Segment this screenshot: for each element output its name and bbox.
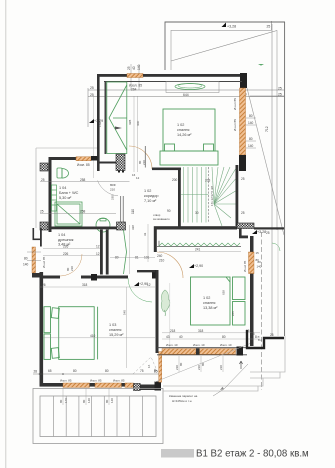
east wall bathroom bbox=[129, 225, 131, 274]
svg-text:318: 318 bbox=[198, 329, 204, 333]
svg-text:Из.кл 85: Из.кл 85 bbox=[233, 98, 237, 110]
svg-text:1 04: 1 04 bbox=[59, 186, 66, 190]
svg-text:Изол. 85: Изол. 85 bbox=[90, 379, 102, 383]
east side roof diagonal bbox=[247, 88, 284, 235]
svg-text:80: 80 bbox=[59, 399, 63, 403]
svg-text:540: 540 bbox=[123, 310, 127, 315]
treads: vertical lines, three bands bbox=[181, 167, 236, 226]
towel radiator bbox=[52, 185, 57, 211]
svg-text:264: 264 bbox=[131, 88, 137, 92]
svg-text:132: 132 bbox=[98, 122, 102, 127]
+2.90 flag bbox=[189, 264, 194, 268]
svg-text:25: 25 bbox=[90, 86, 94, 90]
svg-text:12: 12 bbox=[147, 283, 151, 287]
svg-text:B1 B2 етаж 2 - 80,08 кв.м: B1 B2 етаж 2 - 80,08 кв.м bbox=[196, 449, 309, 460]
svg-text:7,10 м²: 7,10 м² bbox=[144, 199, 157, 203]
svg-text:1 04: 1 04 bbox=[58, 233, 65, 237]
svg-text:Баня + WC: Баня + WC bbox=[59, 191, 79, 195]
svg-text:дрешник: дрешник bbox=[58, 238, 74, 242]
roof slope diagonal bbox=[171, 31, 277, 62]
svg-text:410: 410 bbox=[90, 334, 96, 338]
west wall bbox=[49, 157, 52, 232]
svg-text:Н=105см и т.н.: Н=105см и т.н. bbox=[172, 399, 192, 403]
svg-text:40: 40 bbox=[132, 66, 136, 70]
svg-text:80: 80 bbox=[24, 257, 28, 261]
east wall piece of bedroom103 / corridor wall bbox=[156, 270, 159, 353]
door arc into bedroom bbox=[157, 252, 183, 278]
dashed door swing V bbox=[133, 357, 159, 375]
svg-text:12: 12 bbox=[136, 176, 140, 180]
svg-text:218: 218 bbox=[170, 329, 176, 333]
east wall bbox=[250, 236, 254, 346]
svg-text:Изол. 85: Изол. 85 bbox=[60, 379, 72, 383]
bath bottom wall bbox=[49, 227, 118, 230]
svg-text:80: 80 bbox=[115, 256, 119, 260]
svg-text:101: 101 bbox=[144, 256, 150, 260]
svg-text:за качването: за качването bbox=[153, 217, 170, 221]
west outer wall mid bbox=[33, 228, 35, 240]
svg-text:140: 140 bbox=[87, 398, 91, 403]
west wall bbox=[40, 272, 44, 384]
room dims bbox=[39, 286, 155, 288]
svg-text:43: 43 bbox=[166, 335, 170, 339]
svg-text:200: 200 bbox=[172, 178, 178, 182]
svg-text:1 02: 1 02 bbox=[144, 189, 151, 193]
svg-text:210: 210 bbox=[159, 259, 165, 263]
terrace outer boundary bbox=[165, 22, 285, 70]
svg-text:328: 328 bbox=[131, 225, 135, 230]
svg-text:25: 25 bbox=[267, 25, 271, 29]
svg-text:110: 110 bbox=[131, 209, 135, 214]
svg-text:210: 210 bbox=[142, 160, 146, 165]
svg-text:258: 258 bbox=[80, 178, 86, 182]
svg-text:628: 628 bbox=[222, 290, 226, 295]
svg-text:240: 240 bbox=[157, 254, 163, 258]
wardrobe green tall bbox=[107, 82, 127, 154]
wall pieces between 103 and SE / orange vertical window bbox=[159, 352, 162, 383]
washbasin bbox=[96, 218, 110, 232]
svg-text:спалня: спалня bbox=[203, 301, 215, 305]
svg-text:Изол. 85: Изол. 85 bbox=[77, 163, 90, 167]
svg-text:80: 80 bbox=[73, 369, 77, 373]
svg-text:26: 26 bbox=[42, 283, 46, 287]
svg-text:25: 25 bbox=[278, 93, 282, 97]
svg-text:140: 140 bbox=[23, 263, 29, 267]
svg-text:40: 40 bbox=[179, 335, 183, 339]
svg-text:Из.кл 85: Из.кл 85 bbox=[233, 119, 237, 131]
level flag +3.29 bbox=[89, 119, 94, 123]
svg-text:спалня: спалня bbox=[177, 128, 189, 132]
svg-text:Изол. 10: Изол. 10 bbox=[193, 343, 205, 347]
svg-text:140: 140 bbox=[110, 398, 114, 403]
svg-text:5,30 м²: 5,30 м² bbox=[59, 196, 72, 200]
svg-text:230: 230 bbox=[111, 195, 115, 200]
svg-text:300: 300 bbox=[136, 121, 140, 126]
svg-text:80: 80 bbox=[153, 368, 157, 372]
svg-text:712: 712 bbox=[265, 126, 269, 132]
svg-text:15: 15 bbox=[256, 251, 260, 255]
east double wall bbox=[100, 230, 103, 275]
dim row above wall bbox=[33, 373, 162, 375]
ticks in balcony with labels bbox=[63, 388, 109, 405]
closet zigzag band bbox=[157, 245, 241, 247]
bathroom door arc (east wall) bbox=[98, 181, 119, 196]
svg-text:12: 12 bbox=[96, 245, 100, 249]
svg-text:80: 80 bbox=[179, 362, 183, 366]
svg-text:Каменна парапет на: Каменна парапет на bbox=[169, 394, 198, 398]
svg-text:17x 17/17,5 /28: 17x 17/17,5 /28 bbox=[210, 186, 214, 206]
svg-text:25: 25 bbox=[251, 332, 255, 336]
bottom dims bbox=[162, 332, 260, 334]
shower bbox=[55, 202, 82, 226]
bed bbox=[44, 307, 98, 360]
svg-text:28: 28 bbox=[34, 370, 38, 374]
svg-text:644: 644 bbox=[183, 93, 189, 97]
svg-text:25: 25 bbox=[241, 211, 245, 215]
svg-text:Изол. 10: Изол. 10 bbox=[220, 343, 232, 347]
stair bottom wall bbox=[154, 226, 237, 229]
svg-text:226: 226 bbox=[63, 252, 69, 256]
svg-text:Из.кл 85: Из.кл 85 bbox=[42, 256, 46, 268]
svg-text:140: 140 bbox=[248, 144, 254, 148]
svg-text:8 п: 8 п bbox=[258, 338, 263, 342]
gray roofline left bbox=[36, 147, 97, 149]
top wall: segments + doors bbox=[43, 276, 60, 279]
page left edge scan line bbox=[5, 0, 6, 468]
svg-text:Из.кл 85: Из.кл 85 bbox=[243, 260, 247, 272]
svg-text:+2,90: +2,90 bbox=[194, 264, 203, 268]
svg-text:25: 25 bbox=[127, 66, 131, 70]
svg-text:80: 80 bbox=[222, 335, 226, 339]
svg-text:328: 328 bbox=[128, 120, 132, 125]
svg-text:25: 25 bbox=[278, 87, 282, 91]
svg-text:210: 210 bbox=[70, 266, 74, 271]
svg-text:80: 80 bbox=[201, 362, 205, 366]
svg-text:80: 80 bbox=[82, 399, 86, 403]
svg-text:241: 241 bbox=[195, 248, 201, 252]
svg-text:Изол. 10: Изол. 10 bbox=[166, 343, 178, 347]
svg-text:318: 318 bbox=[82, 283, 88, 287]
svg-text:1 03: 1 03 bbox=[109, 323, 116, 327]
bottom wall bedroom 103 bbox=[40, 383, 64, 387]
svg-text:25: 25 bbox=[241, 177, 245, 181]
svg-text:80Ф: 80Ф bbox=[110, 183, 116, 187]
bed bbox=[191, 277, 246, 325]
top wall bbox=[49, 157, 76, 160]
svg-text:25: 25 bbox=[40, 210, 44, 214]
svg-text:25: 25 bbox=[90, 93, 94, 97]
svg-text:80: 80 bbox=[256, 258, 260, 262]
svg-text:16: 16 bbox=[147, 364, 151, 368]
svg-text:140: 140 bbox=[257, 265, 262, 269]
svg-text:25: 25 bbox=[270, 333, 274, 337]
svg-text:32: 32 bbox=[143, 232, 147, 236]
svg-text:203: 203 bbox=[205, 179, 211, 183]
bottom wall with windows bbox=[157, 347, 247, 349]
svg-text:Изол. 85: Изол. 85 bbox=[113, 379, 125, 383]
svg-text:81: 81 bbox=[135, 256, 139, 260]
toilet bbox=[57, 168, 69, 178]
svg-text:15,29 м²: 15,29 м² bbox=[109, 333, 124, 337]
svg-text:1 02: 1 02 bbox=[203, 296, 210, 300]
svg-text:65: 65 bbox=[48, 369, 52, 373]
svg-text:спалня: спалня bbox=[109, 328, 121, 332]
svg-text:226: 226 bbox=[63, 245, 69, 249]
svg-text:80: 80 bbox=[105, 399, 109, 403]
svg-text:14,26 м²: 14,26 м² bbox=[177, 133, 192, 137]
svg-text:1 02: 1 02 bbox=[177, 123, 184, 127]
svg-text:12: 12 bbox=[96, 252, 100, 256]
south wall of top bedroom + door bbox=[99, 162, 116, 164]
folding door green bbox=[124, 230, 127, 274]
+2.90 flag bbox=[134, 282, 139, 286]
svg-text:140: 140 bbox=[248, 121, 254, 125]
svg-text:30: 30 bbox=[195, 211, 199, 215]
svg-text:13,38 м²: 13,38 м² bbox=[203, 306, 218, 310]
svg-text:80: 80 bbox=[105, 369, 109, 373]
dashed section line bbox=[260, 232, 262, 390]
svg-text:коридор: коридор bbox=[144, 194, 159, 198]
plant bbox=[161, 290, 170, 312]
svg-text:25: 25 bbox=[266, 231, 270, 235]
svg-text:210: 210 bbox=[219, 365, 223, 370]
winder fan bbox=[212, 167, 214, 204]
svg-text:75: 75 bbox=[140, 369, 144, 373]
svg-text:+3,28: +3,28 bbox=[227, 25, 236, 29]
svg-text:210: 210 bbox=[110, 188, 115, 192]
svg-text:80: 80 bbox=[249, 114, 253, 118]
svg-text:80: 80 bbox=[249, 137, 253, 141]
level flag +3.28 top bbox=[222, 23, 227, 28]
svg-text:265: 265 bbox=[231, 311, 235, 316]
dims bbox=[40, 181, 130, 183]
svg-text:25: 25 bbox=[41, 178, 45, 182]
svg-text:258: 258 bbox=[80, 210, 86, 214]
svg-text:90: 90 bbox=[167, 209, 171, 213]
interior dims bbox=[43, 248, 100, 250]
